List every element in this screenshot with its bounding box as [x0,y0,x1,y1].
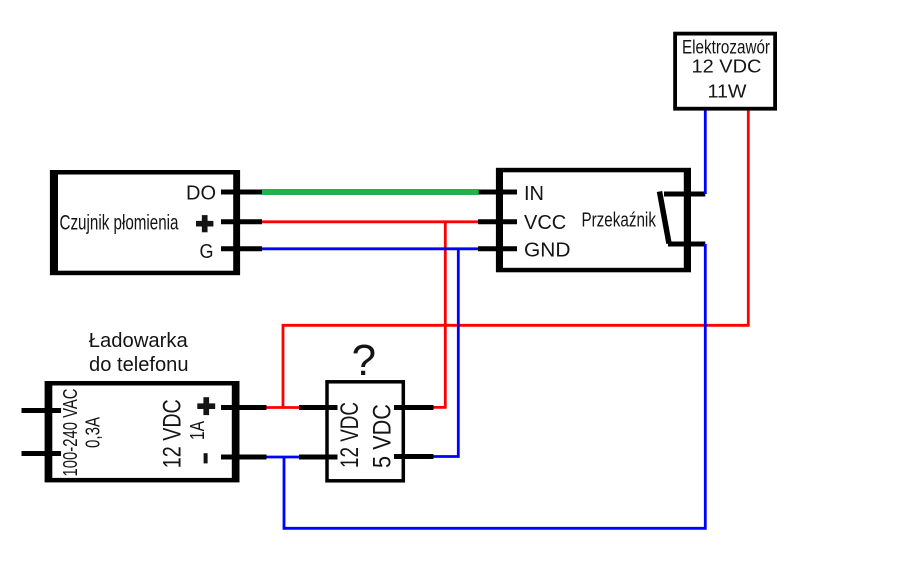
pin 5VDC-out-top stub (converter) [394,405,434,410]
svg-text:12 VDC: 12 VDC [336,402,364,468]
relay contact pin top-right stub [664,192,705,197]
svg-text:VCC: VCC [524,212,566,234]
relay switch lever [660,192,670,244]
pin 5VDC-out-bottom stub (converter) [394,454,434,459]
wire red charger + to converter in-top [267,406,300,409]
svg-text:100-240 VAC: 100-240 VAC [60,389,82,477]
box Przekaznik (relay) [496,168,691,272]
wire blue GND tap down to converter 5VDC-out-bottom [434,249,459,457]
pin AC L stub (charger) [22,408,62,413]
svg-text:do telefonu: do telefonu [89,354,189,376]
wire blue valve to relay contact top [704,111,707,195]
svg-text:Ładowarka: Ładowarka [89,330,189,352]
svg-text:?: ? [352,336,376,385]
pin VCC stub [478,219,517,224]
pin GND stub [478,246,517,251]
svg-text:Elektrozawór: Elektrozawór [682,38,771,59]
svg-text:5 VDC: 5 VDC [369,404,397,468]
svg-text:12 VDC: 12 VDC [692,57,762,77]
wire red valve to +12V rail [283,111,748,408]
pin label minus (charger, rotated) [204,453,208,463]
wire blue charger - to converter in-bottom [267,456,300,459]
svg-text:0,3A: 0,3A [83,417,105,448]
wire blue relay contact bottom to charger minus rail [284,244,705,528]
svg-text:12 VDC: 12 VDC [159,399,187,468]
pin label + (charger) [197,397,215,415]
pin DO stub [221,190,262,195]
wire green DO to IN [262,189,479,195]
svg-text:IN: IN [524,183,544,205]
pin IN stub [478,190,517,195]
pin AC N stub (charger) [22,451,62,456]
wire red + to VCC [262,220,478,223]
pin + stub (sensor) [221,219,262,224]
box Ladowarka do telefonu (phone charger) [45,381,240,482]
svg-text:DO: DO [186,183,216,205]
svg-text:Czujnik płomienia: Czujnik płomienia [60,212,179,235]
pin -12V out stub (charger) [221,455,267,460]
box Elektrozawor (solenoid valve) [675,34,775,109]
svg-text:G: G [200,241,214,263]
pin +12V out stub (charger) [221,405,267,410]
relay contact pin bottom-right stub [668,242,705,247]
svg-text:GND: GND [524,239,571,261]
box ? (DC-DC converter) [327,382,403,481]
pin label + (sensor) [196,215,213,232]
svg-text:Przekaźnik: Przekaźnik [581,209,656,232]
svg-text:1A: 1A [187,420,209,440]
pin G stub [221,246,262,251]
pin 12VDC-in-top stub (converter) [299,405,338,410]
pin 12VDC-in-bottom stub (converter) [299,455,338,460]
wire blue G to GND [262,247,478,250]
svg-text:11W: 11W [708,81,747,101]
box Czujnik plomienia (flame sensor) [50,170,240,275]
wire red VCC tap down to converter 5VDC-out-top [434,222,446,408]
